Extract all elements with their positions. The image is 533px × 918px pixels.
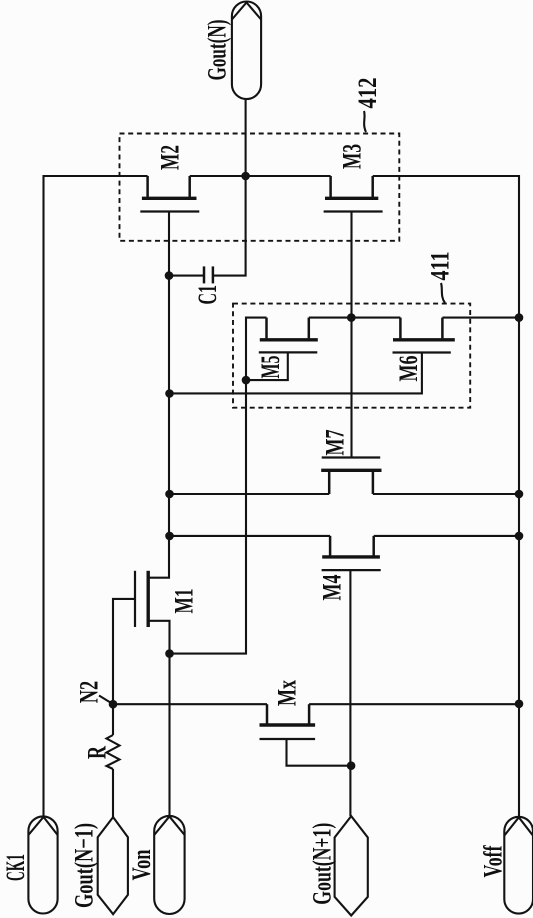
- svg-text:C1: C1: [192, 285, 222, 305]
- svg-text:Gout(N−1): Gout(N−1): [69, 823, 99, 908]
- leader 411: [441, 283, 445, 303]
- transistor M6: [170, 318, 455, 394]
- transistor M3: [324, 176, 383, 212]
- wire rail2 left segment: [170, 535, 331, 537]
- wire Gout(N) lead: [245, 99, 247, 176]
- resistor R: [107, 704, 120, 817]
- terminal Gout(N-1): [98, 817, 128, 914]
- node M1 bottom junction: [165, 649, 174, 658]
- wire top rail right segment and Voff column: [373, 176, 519, 817]
- node M6 gate line on N1 column: [165, 389, 174, 398]
- transistor M4: [322, 536, 381, 816]
- svg-text:M7: M7: [320, 430, 350, 456]
- node rail2 right on Voff column: [515, 532, 524, 541]
- wire Mx right terminal line to Voff column: [309, 703, 519, 705]
- svg-text:M3: M3: [337, 144, 367, 169]
- svg-text:M5: M5: [255, 356, 285, 379]
- terminal Gout(N): [232, 2, 261, 100]
- dashed box 411: [233, 304, 470, 408]
- wire top rail middle segment (Gout(N) net): [190, 175, 331, 177]
- terminal Gout(N+1): [335, 816, 368, 915]
- node M5 gate junction: [242, 376, 251, 385]
- node rail1 left on N1 column: [165, 490, 174, 499]
- node rail1 right on Voff column: [515, 490, 524, 499]
- dashed box 412: [120, 134, 400, 241]
- svg-text:M1: M1: [169, 589, 199, 614]
- svg-text:M2: M2: [155, 145, 185, 170]
- svg-text:Mx: Mx: [272, 679, 302, 706]
- svg-text:M4: M4: [317, 575, 347, 601]
- capacitor C1: [169, 176, 246, 283]
- svg-text:411: 411: [425, 252, 455, 281]
- wire M5/M6 rail left segment and N1b column down to M1 bottom link: [170, 318, 267, 654]
- wire M5/M6 rail right segment to Voff column: [442, 317, 519, 319]
- transistor M7: [321, 458, 381, 495]
- node M5/M6 rail to Voff column: [515, 313, 524, 322]
- node Mx line on Voff column: [515, 700, 524, 709]
- wire M5/M6 rail middle segment: [309, 317, 401, 319]
- leader N2: [99, 696, 112, 704]
- transistor Mx: [260, 704, 352, 766]
- wire N2 line to Mx left terminal: [113, 703, 267, 705]
- wire M3 gate column to M7 gate: [350, 212, 352, 458]
- wire CK1 column and top rail left segment: [44, 176, 148, 816]
- svg-text:CK1: CK1: [0, 854, 30, 881]
- svg-text:Gout(N+1): Gout(N+1): [307, 823, 337, 905]
- transistor M2: [140, 176, 199, 212]
- svg-text:412: 412: [352, 78, 382, 109]
- node rail2 left on N1 column: [165, 532, 174, 541]
- svg-text:R: R: [82, 745, 111, 759]
- svg-text:Von: Von: [126, 849, 156, 880]
- terminal Voff: [504, 817, 533, 914]
- wire rail1 left segment: [170, 493, 330, 495]
- node N2: [109, 700, 118, 709]
- node C1 / M2 gate junction: [165, 271, 174, 280]
- svg-text:Gout(N): Gout(N): [202, 20, 232, 81]
- terminal Von: [154, 816, 184, 914]
- node M3 gate on M5/M6 rail: [347, 313, 356, 322]
- terminal CK1: [28, 816, 57, 913]
- node Mx gate on Gout(N+1) line: [347, 761, 356, 770]
- leader 412: [364, 111, 366, 132]
- svg-text:Voff: Voff: [478, 845, 508, 878]
- svg-text:N2: N2: [74, 681, 104, 704]
- transistor M5: [246, 318, 318, 381]
- wire rail2 right segment: [374, 535, 519, 537]
- transistor M1: [113, 571, 148, 705]
- wire rail1 right segment: [373, 493, 519, 495]
- wire M1 bottom lead down to Von: [148, 621, 169, 816]
- wire M2 gate lead and N1 column down to M1: [148, 212, 169, 578]
- node Gout(N) on top rail: [241, 172, 250, 181]
- svg-text:M6: M6: [393, 356, 423, 382]
